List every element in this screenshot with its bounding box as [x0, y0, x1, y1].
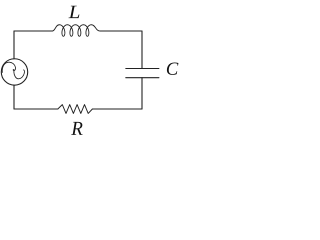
AC source sine wave — [2, 62, 24, 79]
AC source circle — [1, 59, 27, 85]
label C — [167, 63, 179, 75]
wire top-left horizontal — [14, 30, 52, 32]
resistor R zigzag — [58, 105, 93, 114]
wire bottom-left horizontal — [14, 108, 58, 110]
label R — [71, 122, 82, 135]
wire bottom-right horizontal — [92, 108, 142, 110]
label L — [68, 6, 79, 18]
wire right lower vertical — [141, 78, 143, 109]
wire left upper vertical — [13, 31, 15, 59]
inductor L — [52, 25, 100, 37]
capacitor C bottom plate — [126, 77, 159, 79]
wire top-right horizontal — [100, 30, 142, 32]
capacitor C top plate — [126, 68, 159, 70]
wire right upper vertical — [141, 31, 143, 69]
wire left lower vertical — [13, 85, 15, 109]
